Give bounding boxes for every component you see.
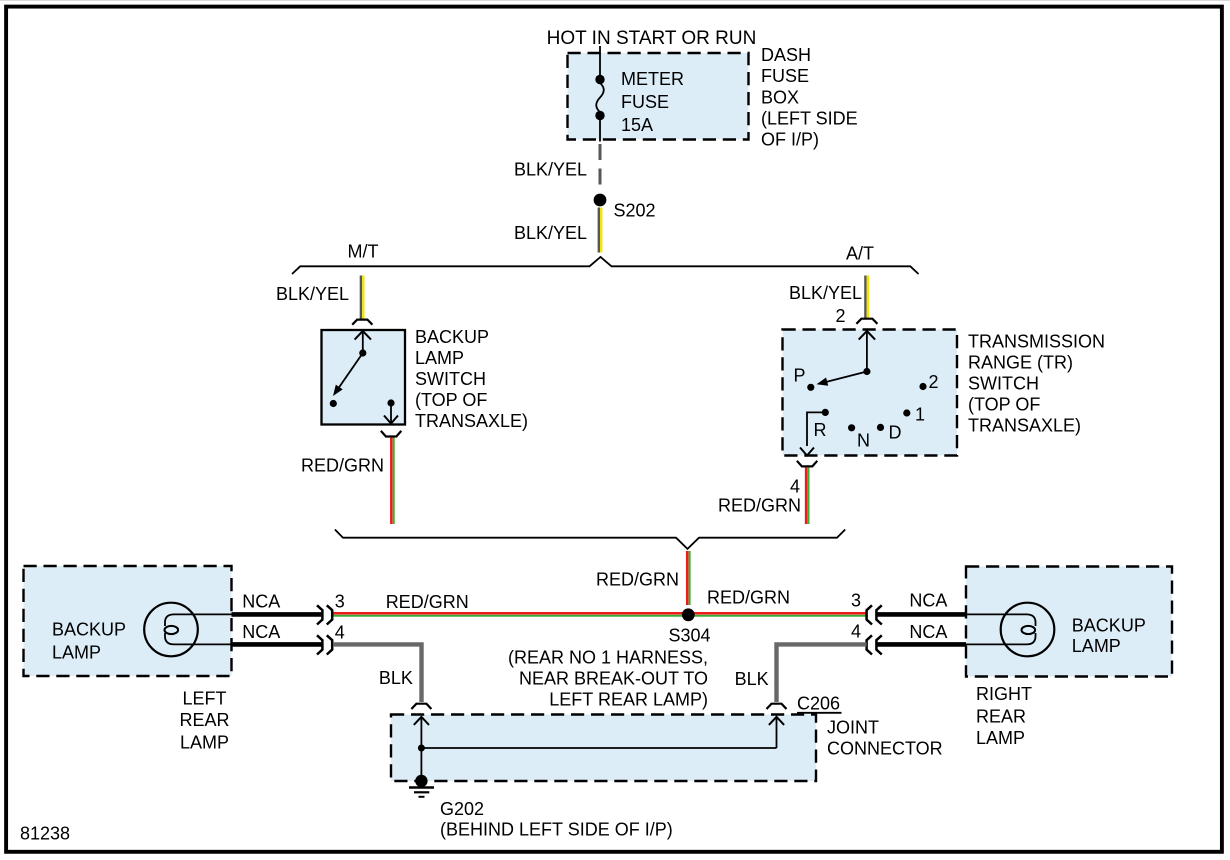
svg-text:4: 4 <box>790 477 800 497</box>
svg-text:FUSE: FUSE <box>761 66 809 86</box>
svg-text:BOX: BOX <box>761 88 799 108</box>
svg-text:TRANSMISSION: TRANSMISSION <box>968 332 1105 352</box>
svg-text:NCA: NCA <box>242 622 280 642</box>
svg-text:LEFT REAR LAMP): LEFT REAR LAMP) <box>549 689 708 709</box>
svg-text:2: 2 <box>929 372 939 392</box>
svg-text:LAMP: LAMP <box>976 728 1025 748</box>
svg-text:RED/GRN: RED/GRN <box>386 592 469 612</box>
svg-text:N: N <box>857 431 870 451</box>
svg-text:METER: METER <box>621 69 684 89</box>
svg-text:LAMP: LAMP <box>180 732 229 752</box>
svg-text:BLK/YEL: BLK/YEL <box>514 160 587 180</box>
svg-text:LAMP: LAMP <box>1072 636 1121 656</box>
svg-text:FUSE: FUSE <box>621 92 669 112</box>
svg-text:(TOP OF: (TOP OF <box>968 395 1040 415</box>
svg-text:S202: S202 <box>614 201 656 221</box>
svg-text:LAMP: LAMP <box>52 643 101 663</box>
svg-text:BACKUP: BACKUP <box>52 620 126 640</box>
svg-text:LAMP: LAMP <box>415 348 464 368</box>
svg-text:(BEHIND LEFT SIDE OF I/P): (BEHIND LEFT SIDE OF I/P) <box>440 820 673 840</box>
svg-text:A/T: A/T <box>846 244 874 264</box>
svg-text:TRANSAXLE): TRANSAXLE) <box>968 416 1081 436</box>
svg-text:(TOP OF: (TOP OF <box>415 390 487 410</box>
svg-text:SWITCH: SWITCH <box>415 369 486 389</box>
svg-text:RED/GRN: RED/GRN <box>718 496 801 516</box>
svg-text:(LEFT SIDE: (LEFT SIDE <box>761 109 858 129</box>
svg-text:RIGHT: RIGHT <box>976 684 1032 704</box>
svg-text:REAR: REAR <box>976 707 1026 727</box>
svg-text:RED/GRN: RED/GRN <box>596 570 679 590</box>
svg-text:NCA: NCA <box>242 592 280 612</box>
svg-text:BACKUP: BACKUP <box>1072 616 1146 636</box>
svg-text:JOINT: JOINT <box>827 718 879 738</box>
svg-text:S304: S304 <box>668 626 710 646</box>
svg-text:RED/GRN: RED/GRN <box>707 588 790 608</box>
svg-text:3: 3 <box>335 592 345 612</box>
svg-text:LEFT: LEFT <box>182 688 226 708</box>
svg-text:1: 1 <box>915 405 925 425</box>
svg-text:D: D <box>889 423 902 443</box>
svg-text:C206: C206 <box>797 694 840 714</box>
svg-text:NCA: NCA <box>909 591 947 611</box>
svg-text:NCA: NCA <box>909 622 947 642</box>
svg-text:BLK/YEL: BLK/YEL <box>789 283 862 303</box>
svg-text:SWITCH: SWITCH <box>968 374 1039 394</box>
svg-text:P: P <box>793 366 805 386</box>
svg-text:15A: 15A <box>621 115 653 135</box>
svg-text:OF I/P): OF I/P) <box>761 130 819 150</box>
svg-text:RED/GRN: RED/GRN <box>301 456 384 476</box>
svg-text:81238: 81238 <box>20 824 70 844</box>
svg-text:BLK: BLK <box>735 669 769 689</box>
svg-text:M/T: M/T <box>348 242 379 262</box>
svg-text:BLK/YEL: BLK/YEL <box>276 284 349 304</box>
svg-text:2: 2 <box>835 306 845 326</box>
svg-text:DASH: DASH <box>761 45 811 65</box>
svg-text:REAR: REAR <box>179 710 229 730</box>
svg-text:R: R <box>814 420 827 440</box>
svg-text:RANGE (TR): RANGE (TR) <box>968 353 1073 373</box>
svg-text:G202: G202 <box>440 799 484 819</box>
svg-text:4: 4 <box>335 623 345 643</box>
svg-text:TRANSAXLE): TRANSAXLE) <box>415 411 528 431</box>
svg-text:BLK/YEL: BLK/YEL <box>514 223 587 243</box>
svg-text:CONNECTOR: CONNECTOR <box>827 739 943 759</box>
svg-text:4: 4 <box>851 622 861 642</box>
svg-text:BACKUP: BACKUP <box>415 327 489 347</box>
svg-text:BLK: BLK <box>379 668 413 688</box>
svg-text:3: 3 <box>851 591 861 611</box>
svg-text:(REAR NO 1 HARNESS,: (REAR NO 1 HARNESS, <box>508 648 708 668</box>
svg-text:NEAR BREAK-OUT TO: NEAR BREAK-OUT TO <box>519 669 708 689</box>
svg-text:HOT IN START OR RUN: HOT IN START OR RUN <box>547 28 757 49</box>
